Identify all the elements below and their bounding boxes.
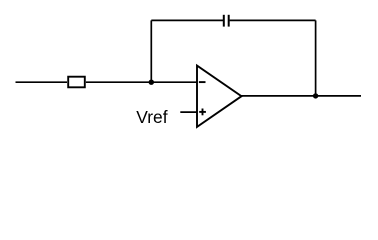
wire feedback left vertical bbox=[150, 20, 152, 82]
op-amp U1 minus sign (inverting input marker) bbox=[199, 81, 206, 83]
wire Vref to op-amp non-inverting input bbox=[180, 111, 197, 113]
wire node A to op-amp inverting input bbox=[151, 81, 197, 83]
wire resistor to node A bbox=[86, 81, 151, 83]
node A junction dot bbox=[149, 80, 154, 85]
wire feedback top left bbox=[151, 19, 223, 21]
wire output bbox=[242, 95, 362, 97]
wire input left bbox=[16, 81, 68, 83]
op-amp U1 plus sign (non-inverting input marker) bbox=[199, 109, 206, 116]
svg-text:Vref: Vref bbox=[136, 107, 167, 127]
op-amp U1 triangle bbox=[197, 66, 242, 127]
capacitor C1 right plate bbox=[228, 15, 230, 27]
resistor R1 bbox=[68, 77, 85, 88]
wire feedback right vertical bbox=[315, 20, 317, 96]
node B junction dot bbox=[313, 93, 318, 98]
capacitor C1 left plate bbox=[223, 15, 225, 27]
wire feedback top right bbox=[230, 19, 316, 21]
